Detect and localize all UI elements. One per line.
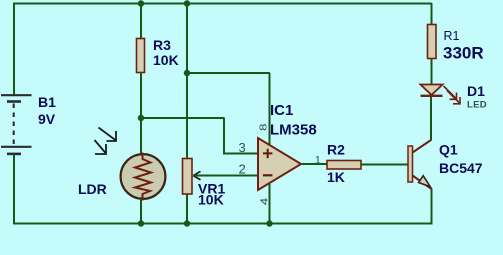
svg-text:LM358: LM358 [270, 122, 317, 139]
svg-text:10K: 10K [198, 192, 224, 208]
transistor Q1 [408, 140, 432, 189]
wire noninverting input from R3/LDR node [141, 117, 225, 119]
wire R3 column top [140, 3, 142, 39]
svg-text:10K: 10K [153, 52, 179, 68]
wire VR1 bottom [186, 194, 188, 224]
node VR1 bottom rail junction [184, 220, 190, 226]
potentiometer VR1 [183, 159, 193, 195]
svg-text:2: 2 [239, 162, 246, 177]
wire R3 bottom to LDR [140, 72, 142, 156]
wire pin 4 down [269, 184, 271, 224]
wire into pin 3 [224, 153, 259, 155]
svg-text:R2: R2 [327, 142, 345, 158]
svg-text:IC1: IC1 [270, 102, 293, 119]
LDR light arrows [95, 128, 117, 155]
op-amp plus sign [263, 149, 272, 158]
resistor R3 [137, 39, 145, 73]
svg-text:D1: D1 [467, 83, 485, 99]
svg-text:R1: R1 [444, 29, 460, 43]
wire top right corner down to R1 [431, 3, 433, 25]
LED D1 [421, 85, 443, 96]
svg-text:LDR: LDR [78, 181, 107, 197]
svg-text:Q1: Q1 [439, 142, 458, 158]
LED emission arrows [444, 86, 461, 104]
svg-text:330R: 330R [443, 44, 484, 63]
node mid column / pin8 branch [184, 70, 190, 76]
wire pin8 branch horizontal [187, 72, 270, 74]
svg-text:4: 4 [258, 197, 270, 205]
wire R1 to LED [431, 59, 433, 85]
VR1 wiper arrow [193, 171, 200, 180]
wire mid column (top rail to VR1) [186, 3, 188, 159]
svg-text:9V: 9V [38, 111, 56, 127]
wire R2 to base [361, 164, 408, 166]
op-amp U1 triangle [258, 138, 301, 190]
wire left vertical lower (battery -) [13, 155, 15, 225]
LDR [121, 153, 166, 201]
svg-text:R3: R3 [153, 37, 171, 53]
node R3/LDR junction to op-amp [138, 115, 144, 121]
svg-text:B1: B1 [38, 94, 56, 110]
wire pin8 vertical [269, 73, 271, 146]
wire bottom rail [13, 223, 433, 225]
node pin4 bottom rail junction [266, 220, 272, 226]
wire collector up [430, 97, 432, 141]
op-amp minus sign [263, 174, 272, 176]
svg-text:BC547: BC547 [439, 160, 483, 176]
resistor R1 [428, 25, 437, 59]
battery B1 [1, 95, 32, 154]
wire wiper to pin 2 [194, 175, 259, 177]
svg-text:8: 8 [257, 123, 269, 131]
wire op-amp output [301, 163, 327, 165]
svg-text:3: 3 [239, 140, 246, 155]
node top rail / mid column junction [184, 0, 190, 6]
svg-text:1: 1 [315, 154, 321, 166]
svg-text:1K: 1K [327, 169, 345, 185]
wire top rail [13, 3, 432, 5]
node LDR bottom rail junction [138, 220, 144, 226]
svg-text:LED: LED [467, 100, 487, 111]
resistor R2 [327, 161, 361, 170]
wire emitter down [431, 189, 433, 225]
wire LDR bottom [140, 197, 142, 224]
wire left vertical upper (battery +) [13, 3, 15, 95]
wire noninverting input corner down [223, 118, 225, 155]
node top rail / R3 junction [138, 0, 144, 6]
